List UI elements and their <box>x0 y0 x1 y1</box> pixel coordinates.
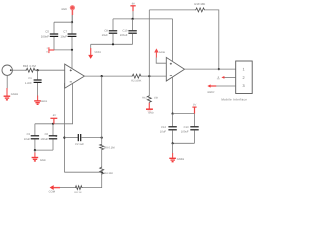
power flag GA08 <box>154 48 166 63</box>
node junction R16/C1 <box>37 69 39 71</box>
svg-text:C7: C7 <box>63 30 67 34</box>
svg-text:C1: C1 <box>28 77 32 80</box>
pin 3 stub with flag GND2 <box>207 84 235 94</box>
capacitor C7 10uF <box>60 22 76 50</box>
node bank2 bottom <box>112 43 114 45</box>
wire J1 to ground <box>6 75 8 88</box>
node bank3 top <box>172 113 174 115</box>
svg-text:R2 100K: R2 100K <box>131 79 141 82</box>
svg-text:15K: 15K <box>154 96 159 99</box>
svg-text:5V: 5V <box>193 104 196 107</box>
svg-text:GND3: GND3 <box>11 93 19 96</box>
wire top of cap bank 3 <box>173 113 195 115</box>
svg-text:1.2nF: 1.2nF <box>25 82 32 85</box>
op-amp U2 <box>166 57 184 81</box>
node C2 right <box>101 137 103 139</box>
svg-text:100uF: 100uF <box>120 34 128 37</box>
svg-text:GA08: GA08 <box>159 51 166 54</box>
wire bottom of cap bank 4 <box>35 149 53 151</box>
node bank3 bottom <box>172 142 174 144</box>
svg-text:GND4: GND4 <box>41 100 48 103</box>
wire R16 to op-amp U1 input <box>35 69 65 71</box>
node bank2 top <box>132 18 134 20</box>
svg-text:R12 1K: R12 1K <box>74 191 82 194</box>
svg-text:Mobile Interface: Mobile Interface <box>221 98 247 102</box>
wire bottom of cap bank 1 <box>54 49 72 51</box>
wire R12 to COM <box>60 187 75 189</box>
wire R10 to output node <box>205 10 219 69</box>
svg-text:10uF: 10uF <box>102 34 108 37</box>
capacitor C1 1.2nF <box>25 70 42 97</box>
capacitor C8 10uF <box>102 19 118 44</box>
svg-text:C13: C13 <box>184 126 189 129</box>
node bottom bank4 <box>34 149 36 151</box>
capacitor C3 10uF <box>24 124 39 150</box>
tiny pin mark near C2 left node <box>56 134 57 136</box>
power flag COM (left arrow) <box>49 185 60 193</box>
resistor R4a 15K <box>142 95 158 103</box>
wire flag to cap bank 1 <box>71 15 73 22</box>
svg-text:C3: C3 <box>27 133 31 136</box>
wire bottom of cap bank 2 <box>91 43 133 45</box>
svg-text:GND: GND <box>61 8 67 11</box>
wire U2 V+ pin <box>172 19 174 62</box>
wire bottom of cap bank 3 <box>173 142 195 144</box>
wire feedback vertical <box>148 10 150 76</box>
power flag 5V <box>192 104 196 114</box>
svg-text:C10: C10 <box>122 29 127 32</box>
resistor R9 0.1M <box>100 144 116 150</box>
pin 2 marker (red) <box>47 47 55 53</box>
wire top of cap bank 2 <box>113 18 173 20</box>
capacitor C5 100nF <box>41 22 58 50</box>
svg-text:GND1: GND1 <box>177 158 185 161</box>
resistor R4 15K <box>100 166 114 174</box>
svg-text:10uF: 10uF <box>24 138 30 141</box>
ground flag below J1 <box>4 88 19 100</box>
resistor R12 1K <box>74 186 82 194</box>
svg-text:VDD1: VDD1 <box>94 51 101 54</box>
op-amp U1 <box>65 64 85 88</box>
node U1 output junction <box>101 75 103 77</box>
svg-text:GND: GND <box>40 159 46 162</box>
svg-text:GND: GND <box>148 111 154 114</box>
svg-text:C12: C12 <box>161 126 166 129</box>
capacitor C6 100uF <box>40 124 57 150</box>
wire R4 down to bottom rail <box>83 175 102 188</box>
svg-text:100nF: 100nF <box>41 34 49 38</box>
connector box (Mobile Interface) <box>221 61 252 102</box>
wire top of cap bank 1 <box>54 21 72 23</box>
wire U1 inverting input down <box>63 83 65 172</box>
capacitor C12 10uF <box>160 114 177 144</box>
ground flag divider <box>146 103 154 115</box>
power flag VDD1 <box>88 44 101 59</box>
resistor R16 4.7M <box>23 64 37 72</box>
svg-text:100uF: 100uF <box>40 138 48 141</box>
wire output column down <box>101 76 103 143</box>
svg-text:COM: COM <box>49 190 56 193</box>
svg-text:100uF: 100uF <box>181 130 189 133</box>
connector J1 (input jack) <box>2 65 12 75</box>
svg-text:R10 10K: R10 10K <box>194 2 205 6</box>
pin 2 stub with flag <box>217 76 236 79</box>
wire V+ pin of U1 <box>71 50 73 69</box>
svg-text:10uF: 10uF <box>160 130 166 133</box>
svg-text:C6: C6 <box>45 133 49 136</box>
svg-text:R16 4.7M: R16 4.7M <box>23 64 37 68</box>
node divider junction <box>101 171 103 173</box>
node feedback junction <box>148 75 150 77</box>
wire divider leg below feedback junction <box>148 76 150 95</box>
wire U2 V- pin down <box>172 77 174 114</box>
power flag -9V <box>130 2 135 19</box>
resistor R2 10K <box>131 74 141 82</box>
node top wire bank1 <box>71 21 73 23</box>
ground flag bank4 <box>32 150 46 162</box>
node C2 left <box>63 137 65 139</box>
power flag 4V <box>50 114 57 124</box>
wire U2 output <box>185 68 236 70</box>
svg-text:C8: C8 <box>104 29 108 32</box>
node feedback/output <box>218 68 220 70</box>
ground flag below C1 <box>34 96 48 105</box>
capacitor C13 100uF <box>181 114 199 144</box>
svg-text:4V: 4V <box>53 114 56 117</box>
wire J1 to R16 <box>12 69 25 71</box>
wire R9 to R4 <box>101 150 103 166</box>
capacitor C10 100uF <box>120 19 137 44</box>
resistor R10 10K <box>194 2 205 12</box>
svg-text:R4a: R4a <box>142 96 147 99</box>
svg-text:10uF: 10uF <box>60 34 67 38</box>
wire U1 output <box>84 75 131 77</box>
svg-text:1: 1 <box>243 67 245 71</box>
svg-text:C2 1uF: C2 1uF <box>75 143 84 146</box>
svg-text:3: 3 <box>243 84 245 88</box>
wire V- pin of U1 down <box>35 83 73 124</box>
capacitor C2 1uF <box>64 134 101 146</box>
node bottom wire bank1 <box>71 49 73 51</box>
wire R2 to U2 inverting input <box>142 75 167 77</box>
svg-text:2: 2 <box>243 76 245 80</box>
svg-text:C5: C5 <box>45 30 49 34</box>
power flag GND (top, red up arrow) <box>61 5 75 15</box>
wire horizontal to divider junction <box>64 171 101 173</box>
svg-text:-9V: -9V <box>131 2 135 5</box>
svg-text:R9 0.1M: R9 0.1M <box>104 146 115 149</box>
svg-text:GND2: GND2 <box>207 91 215 94</box>
wire feedback top <box>149 9 195 11</box>
ground flag GND1 <box>169 143 184 161</box>
svg-text:R4 15K: R4 15K <box>104 172 113 175</box>
node 4V flag junction <box>52 123 54 125</box>
